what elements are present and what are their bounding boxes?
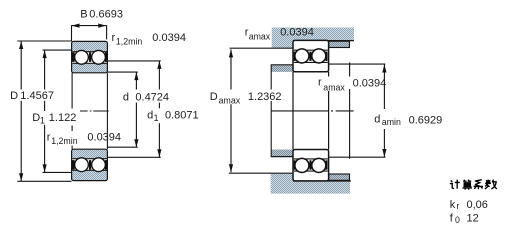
svg-text:1,2min: 1,2min [116, 37, 143, 47]
housing bore line [293, 40, 354, 42]
bearing section bottom (white, mirrored) [293, 150, 329, 181]
bore silhouette lines [72, 73, 107, 149]
svg-text:D: D [210, 91, 218, 103]
shaft shoulder band (top half) [271, 65, 293, 72]
算 [462, 180, 472, 190]
svg-text:k: k [450, 199, 456, 211]
计算系数 (calculation factors) drawn as strokes [450, 180, 497, 190]
D dimension [17, 41, 71, 181]
svg-text:1.122: 1.122 [49, 112, 77, 124]
centerline (axis) [80, 110, 109, 112]
svg-text:d: d [147, 109, 153, 121]
svg-text:amax: amax [249, 32, 271, 42]
svg-text:d: d [123, 92, 129, 104]
bearing side face lines [292, 72, 294, 150]
r amax lower label + ext line [349, 62, 351, 76]
right locating ring (top) [329, 41, 350, 47]
svg-text:0.0394: 0.0394 [152, 32, 186, 44]
系 [474, 180, 483, 190]
svg-text:0.4724: 0.4724 [135, 92, 169, 104]
svg-text:1,2min: 1,2min [51, 136, 78, 146]
svg-text:1.2362: 1.2362 [248, 91, 282, 103]
svg-text:0,06: 0,06 [467, 199, 488, 211]
svg-text:0.6929: 0.6929 [409, 115, 443, 127]
d dimension [107, 61, 160, 157]
svg-text:D: D [10, 90, 18, 102]
B width dimension [72, 25, 107, 41]
svg-text:r: r [112, 32, 116, 44]
bearing section top (white) [293, 40, 329, 71]
svg-text:1.4567: 1.4567 [20, 90, 54, 102]
shaft section (bottom band + left shoulder) [271, 173, 350, 194]
svg-text:0.8071: 0.8071 [165, 109, 199, 121]
svg-text:r: r [47, 131, 51, 143]
计 [450, 180, 460, 189]
centerline (axis) right figure [271, 110, 354, 112]
shaft shoulder band (bottom half) [271, 150, 293, 157]
right locating ring (bottom) [329, 174, 350, 180]
D1 dimension [43, 50, 72, 172]
svg-text:0.6693: 0.6693 [89, 9, 123, 21]
svg-text:B: B [80, 9, 87, 21]
shaft shoulder face vertical line [270, 65, 272, 90]
bearing ring section (bottom, mirrored) [72, 149, 108, 180]
svg-text:amin: amin [382, 117, 401, 127]
housing shoulder face line (with Damax ext to left) [230, 47, 294, 49]
svg-text:0.0394: 0.0394 [280, 27, 314, 39]
svg-text:0.0394: 0.0394 [353, 78, 387, 90]
Damax dimension [230, 49, 232, 89]
d1 dimension [107, 72, 137, 147]
svg-text:d: d [374, 114, 380, 126]
damin dimension [329, 63, 386, 65]
svg-text:0: 0 [455, 215, 460, 225]
housing section (top band + left shoulder) [272, 28, 354, 49]
svg-text:1: 1 [40, 116, 45, 126]
svg-text:r: r [456, 201, 459, 211]
svg-text:1: 1 [154, 113, 159, 123]
svg-text:D: D [32, 112, 40, 124]
数 [485, 180, 497, 189]
svg-text:0.0394: 0.0394 [87, 131, 121, 143]
bearing outer+inner ring section (top) [72, 41, 108, 72]
svg-text:amax: amax [323, 83, 345, 93]
svg-text:12: 12 [467, 213, 479, 225]
svg-text:r: r [318, 76, 322, 88]
svg-text:amax: amax [219, 96, 241, 106]
